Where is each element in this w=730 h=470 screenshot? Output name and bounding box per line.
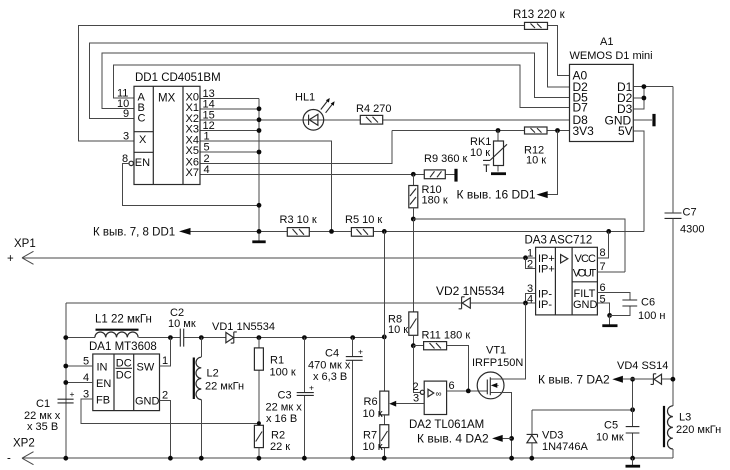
wire DA2 out to gate	[447, 390, 488, 392]
wire EN	[66, 382, 93, 384]
svg-text:180 к: 180 к	[422, 195, 448, 207]
wire VCC	[597, 231, 608, 257]
node EN-bus	[257, 203, 262, 208]
node IP+	[523, 255, 528, 260]
trimmer R6	[363, 231, 425, 420]
svg-text:GND: GND	[573, 299, 598, 311]
wire X3 to corner	[200, 130, 259, 132]
svg-text:ХР1: ХР1	[14, 238, 36, 250]
svg-text:2: 2	[162, 390, 168, 402]
svg-text:2: 2	[527, 259, 533, 271]
node SW-C2	[168, 335, 173, 340]
svg-text:+: +	[7, 253, 14, 265]
svg-text:R1: R1	[270, 355, 284, 367]
svg-text:К выв. 16 DD1: К выв. 16 DD1	[457, 188, 536, 202]
svg-text:2: 2	[413, 381, 419, 393]
wire X1 to bus	[200, 108, 259, 110]
wire R10 node down through rows to R8	[412, 219, 414, 312]
svg-text:10 мк: 10 мк	[596, 432, 624, 444]
node VD3 bottom	[529, 456, 534, 461]
wire down to DA2 pin2	[413, 346, 420, 393]
svg-text:R7: R7	[363, 430, 377, 442]
wire output row 337	[66, 337, 385, 339]
svg-text:R11 180 к: R11 180 к	[422, 330, 471, 342]
svg-text:EN: EN	[96, 378, 111, 390]
inductor L1	[95, 314, 152, 338]
capacitor C1	[24, 389, 75, 433]
svg-text:1N4746A: 1N4746A	[542, 441, 589, 453]
node R7 bottom	[382, 456, 387, 461]
node VD4-C5	[630, 377, 635, 382]
wire GND A1	[633, 119, 652, 121]
svg-text:3: 3	[123, 131, 129, 143]
svg-text:EN: EN	[135, 157, 150, 169]
node DA1 gnd	[168, 456, 173, 461]
svg-text:4: 4	[204, 164, 210, 176]
svg-text:VD4 SS14: VD4 SS14	[617, 360, 668, 372]
svg-text:100 к: 100 к	[270, 367, 296, 379]
svg-text:X: X	[139, 134, 147, 146]
wire 3V3 line to A1	[392, 130, 570, 132]
node EN	[63, 380, 68, 385]
node 3V3	[555, 128, 560, 133]
svg-text:IRFP150N: IRFP150N	[472, 357, 523, 369]
ground bar R9	[454, 169, 457, 182]
svg-text:VD1 1N5534: VD1 1N5534	[212, 321, 275, 333]
svg-text:Т: Т	[483, 163, 490, 175]
resistor R11	[413, 330, 470, 391]
node bus-R3row	[257, 229, 262, 234]
node R1 top	[257, 335, 262, 340]
wire VOUT row	[413, 219, 625, 272]
svg-text:VOUT: VOUT	[573, 267, 597, 279]
svg-text:8: 8	[600, 247, 606, 259]
svg-text:L2: L2	[207, 368, 219, 380]
arrow к выв.7,8 DD1	[179, 228, 191, 235]
ground C5	[632, 458, 634, 465]
wire GND pin2 down	[160, 400, 171, 458]
wire D2 right	[633, 97, 644, 99]
resistor R1	[254, 338, 296, 426]
resistor R13	[513, 9, 566, 29]
wire VD3 row	[532, 409, 633, 411]
capacitor C2	[168, 307, 196, 347]
svg-text:9: 9	[123, 108, 129, 120]
wire GND DA3	[597, 303, 609, 315]
node C5 bottom	[630, 456, 635, 461]
node L2 bottom	[199, 456, 204, 461]
node VOUT-R10	[411, 217, 416, 222]
svg-text:3V3: 3V3	[573, 124, 595, 138]
node R8-R11	[411, 343, 416, 348]
node IN	[63, 364, 68, 369]
multiplexer DD1 CD4051BM	[134, 72, 221, 185]
ground DA3	[609, 315, 611, 324]
svg-text:A1: A1	[600, 36, 613, 48]
svg-text:GND: GND	[135, 396, 160, 408]
wire X5 to bus	[200, 151, 259, 153]
wire IP- bracket	[526, 293, 536, 303]
svg-text:х 16 В: х 16 В	[266, 413, 297, 425]
svg-text:ХР2: ХР2	[13, 438, 35, 450]
connector XP1	[7, 238, 36, 265]
svg-text:К выв. 7, 8 DD1: К выв. 7, 8 DD1	[93, 227, 175, 239]
svg-text:22 к: 22 к	[270, 441, 290, 453]
svg-text:R6: R6	[364, 396, 378, 408]
svg-text:4300: 4300	[680, 224, 704, 236]
EN inverter circle	[129, 161, 133, 165]
node X4-R3R5	[329, 229, 334, 234]
thermistor RK1	[470, 131, 507, 176]
wire X6 up to 3V3 line	[200, 131, 392, 164]
svg-text:IN: IN	[97, 361, 108, 373]
svg-text:4: 4	[527, 294, 533, 306]
node FB junction	[257, 421, 261, 425]
resistor R10	[409, 174, 448, 208]
node rail-L1	[63, 335, 68, 340]
svg-text:C: C	[138, 113, 146, 125]
svg-text:L3: L3	[679, 412, 691, 424]
schottky VD4 SS14	[617, 360, 673, 384]
wire net D7-A(pin11)	[114, 65, 570, 108]
svg-text:X7: X7	[186, 167, 199, 179]
wire input rail corner	[65, 303, 67, 458]
svg-text:FILT: FILT	[574, 288, 596, 300]
node rail-VD4	[671, 377, 676, 382]
node C1 bottom	[63, 456, 68, 461]
bus vertical	[258, 98, 260, 240]
svg-text:10 к: 10 к	[363, 408, 383, 420]
opamp DA2 TL061AM	[409, 381, 484, 431]
svg-text:R3 10 к: R3 10 к	[280, 214, 317, 226]
svg-text:L1 22 мкГн: L1 22 мкГн	[95, 314, 152, 326]
svg-text:3: 3	[413, 393, 419, 405]
wire X0 to bus	[200, 97, 259, 99]
node R9-R10	[411, 172, 416, 177]
node source-DA2supply	[509, 436, 514, 441]
svg-text:-: -	[7, 453, 11, 465]
svg-text:C3: C3	[278, 390, 292, 402]
svg-text:WEMOS D1 mini: WEMOS D1 mini	[570, 50, 653, 62]
inductor L2	[193, 357, 244, 399]
svg-text:HL1: HL1	[295, 92, 315, 104]
wire to pin16 DD1 arrow	[548, 131, 558, 195]
svg-text:DD1 CD4051BM: DD1 CD4051BM	[135, 72, 221, 84]
right rail	[672, 87, 674, 406]
svg-text:VT1: VT1	[486, 345, 506, 357]
svg-text:К выв. 7 DA2: К выв. 7 DA2	[538, 373, 610, 387]
wire C6 bottom	[610, 306, 630, 315]
svg-text:22 мкГн: 22 мкГн	[205, 381, 244, 393]
svg-text:10 мк: 10 мк	[168, 318, 196, 330]
svg-text:+: +	[70, 389, 75, 399]
wire IP+2 bracket	[526, 258, 536, 269]
svg-text:FB: FB	[96, 395, 110, 407]
node DA3 gnd	[607, 313, 612, 318]
svg-text:10 к: 10 к	[470, 147, 490, 159]
node C3 bottom	[302, 456, 307, 461]
capacitor C3	[266, 338, 315, 459]
svg-text:470 мк х: 470 мк х	[308, 360, 351, 372]
svg-text:VD2 1N5534: VD2 1N5534	[436, 284, 505, 298]
capacitor C7	[665, 207, 705, 236]
arrow к выв.7 DA2	[612, 376, 623, 383]
resistor R7	[363, 415, 389, 458]
wire bottom gnd row	[22, 457, 673, 459]
node VT1 source bottom	[509, 456, 514, 461]
svg-text:DC: DC	[116, 370, 132, 382]
node R2 bottom	[257, 456, 262, 461]
zener VD3	[527, 410, 589, 458]
svg-text:C6: C6	[641, 297, 655, 309]
LED HL1	[295, 92, 335, 131]
wire net A0-R13-X(pin3)	[79, 26, 570, 142]
svg-text:+: +	[358, 347, 363, 357]
wire D1 to right rail	[633, 86, 673, 88]
node X3	[257, 128, 262, 133]
svg-text:К выв. 4 DA2: К выв. 4 DA2	[417, 432, 489, 446]
wire FB loop	[81, 399, 259, 423]
boost DA1 MT3608	[89, 341, 160, 411]
node L2 top	[199, 335, 204, 340]
svg-text:DA3 ASC712: DA3 ASC712	[525, 235, 593, 247]
svg-text:C4: C4	[325, 348, 339, 360]
svg-text:R9 360 к: R9 360 к	[424, 153, 468, 165]
svg-text:10 к: 10 к	[388, 324, 408, 336]
wire L2	[200, 338, 202, 459]
svg-text:R5 10 к: R5 10 к	[345, 214, 382, 226]
svg-text:220 мкГн: 220 мкГн	[676, 424, 721, 436]
resistor R8	[388, 312, 418, 336]
wire IN	[66, 365, 93, 367]
wire X4 down to R3 node	[200, 141, 332, 232]
svg-text:х 6,3 В: х 6,3 В	[313, 371, 347, 383]
svg-text:VD3: VD3	[542, 430, 563, 442]
wire R3 row	[191, 230, 644, 232]
svg-text:5: 5	[204, 142, 210, 154]
wire SW up	[160, 338, 171, 366]
svg-text:C5: C5	[604, 420, 618, 432]
svg-text:22 мк х: 22 мк х	[266, 402, 303, 414]
node X5	[257, 150, 262, 155]
wire net D2-C(pin9)	[90, 43, 570, 119]
svg-text:100 н: 100 н	[638, 310, 665, 322]
svg-text:SW: SW	[137, 361, 155, 373]
node X1	[257, 106, 262, 111]
node C3 top	[302, 335, 307, 340]
svg-text:10 к: 10 к	[526, 155, 546, 167]
svg-text:DA2 TL061AM: DA2 TL061AM	[409, 419, 484, 431]
node D2	[642, 96, 647, 101]
svg-text:DC: DC	[116, 358, 132, 370]
svg-text:R2: R2	[271, 430, 285, 442]
wire X2-HL1-R4-D8	[200, 119, 570, 121]
node X2	[257, 117, 262, 122]
wire VOUT	[597, 271, 625, 273]
wire R8 bottom to R11 node	[412, 335, 414, 345]
svg-text:C7: C7	[683, 207, 697, 219]
svg-text:7: 7	[600, 261, 606, 273]
svg-text:IP+: IP+	[538, 264, 555, 276]
resistor R4	[356, 103, 391, 124]
zener VD2	[436, 284, 505, 309]
node C5 mid	[630, 407, 635, 412]
svg-text:6: 6	[449, 380, 455, 392]
connector XP2	[7, 438, 35, 465]
ground A1	[652, 114, 655, 126]
current sensor DA3 ASC712	[525, 235, 598, 315]
svg-text:IP-: IP-	[538, 299, 552, 311]
node RK1 top	[496, 128, 501, 133]
node R11 feedback	[466, 389, 471, 394]
wire FILT to C6	[597, 293, 629, 300]
svg-text:1: 1	[162, 355, 168, 367]
wire IP- node down to VT1 drain	[490, 303, 525, 379]
resistor R5	[345, 214, 382, 236]
node R6 rail	[382, 335, 387, 340]
capacitor C6	[622, 297, 665, 323]
ground bus	[252, 240, 265, 243]
svg-text:∞: ∞	[436, 389, 442, 399]
wire X7-R9 row	[200, 173, 454, 175]
resistor R12	[524, 127, 547, 167]
svg-text:MX: MX	[158, 93, 176, 105]
svg-text:х 35 В: х 35 В	[27, 421, 58, 433]
wire EN to bus	[123, 163, 259, 205]
svg-text:5V: 5V	[618, 124, 633, 138]
svg-text:10 к: 10 к	[363, 441, 383, 453]
wire net D5-B(pin10)	[102, 53, 570, 108]
mosfet VT1 IRFP150N	[472, 345, 525, 459]
svg-text:DA1 MT3608: DA1 MT3608	[89, 341, 157, 353]
wire VD2 row	[66, 302, 536, 304]
node R5 right	[382, 229, 387, 234]
node C4 bottom	[350, 456, 355, 461]
svg-text:C1: C1	[36, 398, 50, 410]
wire R10 to VOUT row	[412, 208, 414, 219]
capacitor C5	[596, 379, 639, 458]
node D1	[642, 84, 647, 89]
diode VD1	[212, 321, 275, 343]
resistor R2	[254, 425, 290, 458]
module A1 WEMOS D1 mini	[570, 36, 653, 142]
svg-text:VCC: VCC	[575, 253, 597, 265]
inductor L3	[663, 406, 721, 449]
arrow к выв.4 DA2	[492, 435, 503, 442]
node VCC branch	[606, 229, 611, 234]
wire L3 bottom corner	[672, 449, 674, 458]
node C4 top	[350, 335, 355, 340]
wire 5V down to supply row	[633, 131, 644, 232]
capacitor C4	[308, 338, 363, 459]
node IP-	[523, 301, 528, 306]
wire XP1 row to IP+	[22, 257, 536, 259]
svg-text:R13 220 к: R13 220 к	[513, 9, 566, 21]
svg-text:+: +	[309, 383, 314, 393]
resistor R9	[424, 153, 468, 179]
resistor R3	[280, 214, 317, 236]
wire D3 up to D2	[633, 87, 644, 109]
svg-text:X5: X5	[186, 145, 199, 157]
arrow к выв.16 DD1	[537, 191, 548, 198]
svg-text:R4 270: R4 270	[356, 103, 391, 115]
